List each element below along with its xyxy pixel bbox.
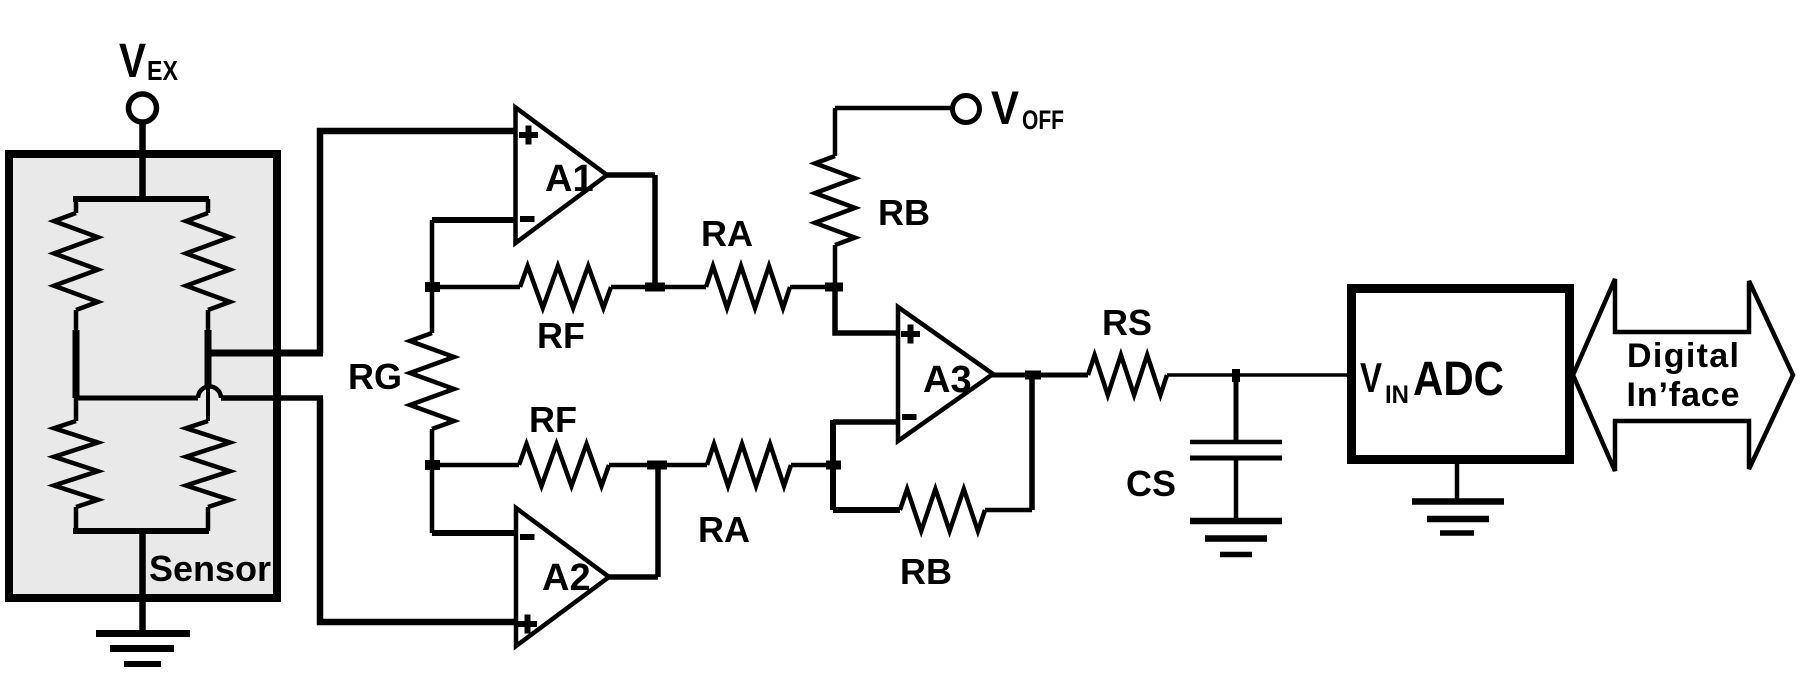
svg-text:OFF: OFF [1022, 105, 1064, 135]
wire bridge top [73, 196, 209, 202]
op-amp A1 [516, 108, 608, 244]
wire RS to ADC [1167, 373, 1349, 377]
wire A3 feedback left vertical [830, 420, 836, 510]
svg-text:RF: RF [537, 315, 585, 356]
wire RG vertical upper [430, 220, 435, 333]
resistor bridge bottom-right [186, 421, 230, 507]
wire A1 inverting input [432, 217, 516, 223]
wire Vex stem [139, 122, 146, 199]
Vex terminal [129, 94, 157, 122]
wire Voff [835, 106, 953, 111]
svg-text:V: V [991, 81, 1020, 134]
svg-text:RB: RB [878, 192, 930, 233]
node RA RB junction [825, 283, 843, 292]
sensor box [9, 154, 277, 598]
wire hop crossover [198, 387, 221, 399]
wire A2 output [608, 463, 658, 577]
wire bus upper [320, 131, 516, 353]
resistor RF bottom [432, 463, 519, 468]
node A2 out junction [647, 461, 667, 470]
wire bus lower [320, 399, 516, 622]
digital interface arrow [1573, 279, 1793, 471]
wire A1 output [606, 175, 655, 289]
wire A2 inverting input [432, 530, 516, 536]
svg-text:A1: A1 [545, 158, 594, 200]
ground CS [1190, 518, 1282, 525]
svg-text:RA: RA [698, 509, 750, 550]
svg-text:CS: CS [1126, 463, 1176, 504]
svg-text:RB: RB [900, 551, 952, 592]
wire RG vertical lower [430, 429, 435, 533]
wire ADC ground stem [1455, 464, 1460, 501]
resistor RG [410, 333, 454, 429]
node A3 out junction [1025, 371, 1041, 380]
resistor RA top [657, 285, 706, 290]
resistor bridge bottom-left [74, 398, 79, 421]
resistor bridge top-left [74, 199, 79, 213]
svg-text:V: V [1360, 354, 1382, 401]
svg-text:ADC: ADC [1413, 353, 1504, 406]
op-amp A2 [516, 508, 609, 646]
svg-text:Digital: Digital [1627, 337, 1739, 375]
node RF bottom left [425, 460, 440, 470]
svg-text:RA: RA [701, 213, 753, 254]
svg-text:A2: A2 [542, 557, 591, 599]
wire A3 output [992, 373, 1088, 378]
svg-text:V: V [119, 35, 146, 88]
resistor RS [1088, 355, 1167, 395]
ground sensor [96, 630, 190, 637]
svg-text:RS: RS [1102, 302, 1152, 343]
svg-text:Sensor: Sensor [149, 548, 271, 589]
svg-text:EX: EX [147, 55, 178, 86]
Voff terminal [953, 96, 980, 123]
wire bridge bottom [73, 528, 209, 534]
wire RB to A3 plus [835, 287, 898, 333]
wire bridge out left-mid [76, 396, 198, 401]
svg-text:A3: A3 [923, 359, 972, 401]
resistor RF top [432, 285, 520, 290]
resistor RB bottom [833, 507, 900, 513]
ADC box [1352, 289, 1570, 460]
wire A3 inverting input [833, 419, 898, 425]
svg-text:In’face: In’face [1627, 376, 1740, 414]
wire left-mid to bus [221, 395, 323, 401]
wire right branch mid [205, 330, 212, 387]
resistor RA bottom [658, 463, 707, 468]
resistor RB top [833, 108, 838, 156]
wire A3 feedback right vertical [1029, 375, 1035, 510]
wire left branch mid [73, 330, 80, 398]
node CS junction [1232, 369, 1240, 382]
node RF top left [425, 282, 440, 292]
svg-text:RF: RF [529, 399, 577, 440]
wire under hop [206, 387, 210, 421]
node A3 inv junction [826, 461, 841, 470]
resistor bridge top-right [206, 199, 211, 213]
svg-text:RG: RG [348, 356, 402, 397]
svg-text:IN: IN [1385, 381, 1409, 409]
ground ADC [1412, 498, 1504, 505]
wire bottom drop to ground [139, 531, 146, 633]
node A1 out junction [645, 283, 665, 292]
wire bridge out right-mid thick [208, 350, 323, 357]
capacitor CS [1234, 375, 1239, 441]
op-amp A3 [898, 307, 993, 441]
